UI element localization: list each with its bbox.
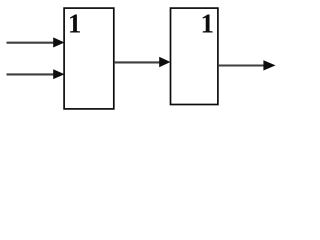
arrowhead: into U2 [159, 57, 170, 68]
arrowhead: output Y [263, 60, 275, 70]
svg-text:1: 1 [201, 9, 215, 39]
wire: input net A to U1 pin 1 [7, 42, 57, 44]
arrowhead: input A into U1 [53, 37, 64, 47]
svg-text:1: 1 [68, 9, 82, 39]
wire: U1 output to U2 input [114, 61, 161, 63]
gate U2 (IEC buffer symbol, box) [171, 8, 218, 104]
gate U1 (IEC OR symbol, box) [64, 8, 114, 109]
wire: U2 output net Y [218, 64, 266, 66]
wire: input net B to U1 pin 2 [7, 73, 57, 75]
arrowhead: input B into U1 [53, 69, 64, 79]
